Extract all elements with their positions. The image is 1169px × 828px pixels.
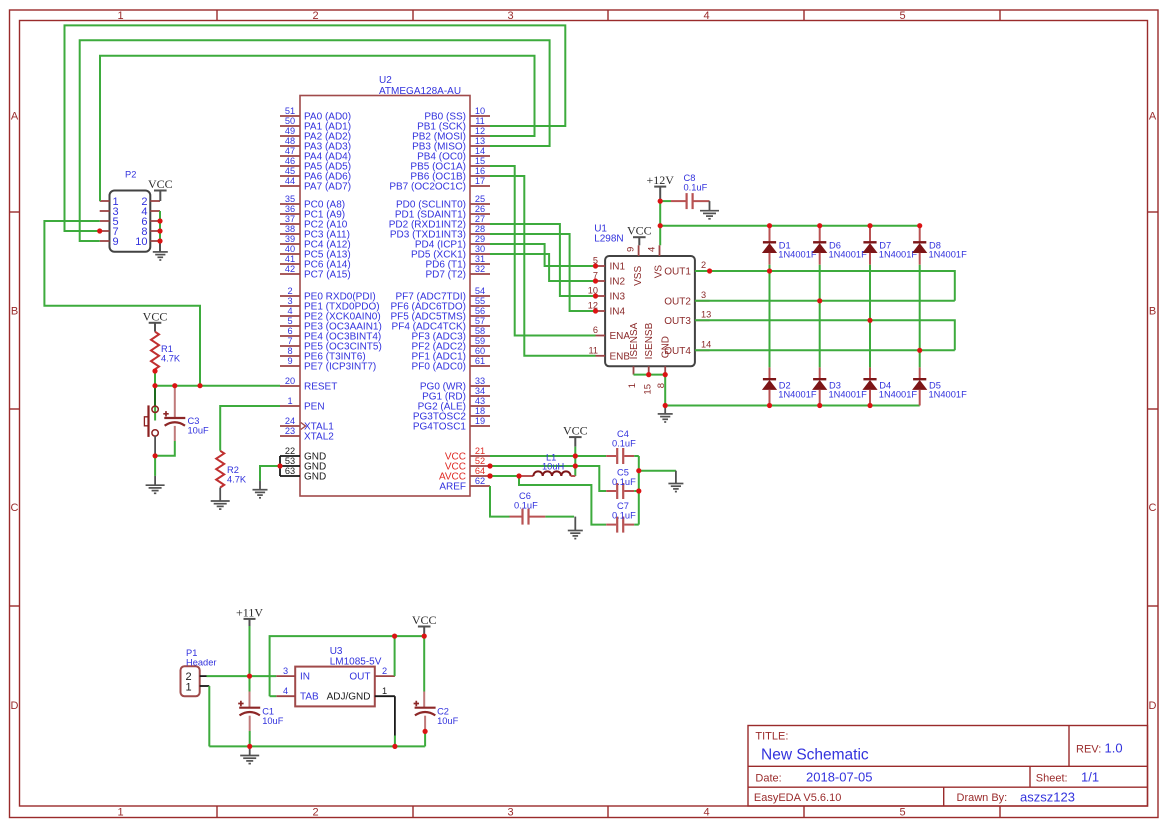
svg-text:10: 10	[135, 236, 147, 248]
svg-text:19: 19	[475, 416, 485, 426]
svg-text:20: 20	[285, 376, 295, 386]
svg-text:41: 41	[285, 254, 295, 264]
svg-text:3: 3	[507, 807, 513, 819]
svg-text:1N4001F: 1N4001F	[929, 250, 968, 260]
svg-text:59: 59	[475, 336, 485, 346]
svg-text:C: C	[11, 502, 19, 514]
capacitor C3 10uF	[174, 386, 176, 418]
svg-text:Header: Header	[186, 658, 217, 668]
svg-text:21: 21	[475, 446, 485, 456]
svg-text:0.1uF: 0.1uF	[684, 183, 708, 193]
svg-text:61: 61	[475, 356, 485, 366]
svg-text:PEN: PEN	[304, 402, 325, 413]
wire P2 pin4-6-8-10 bus	[159, 211, 161, 241]
diode D8 1N4001F	[919, 226, 921, 242]
ground at C8	[709, 201, 711, 211]
svg-text:1N4001F: 1N4001F	[829, 390, 868, 400]
svg-text:55: 55	[475, 296, 485, 306]
svg-text:+11V: +11V	[236, 606, 263, 620]
svg-text:32: 32	[475, 264, 485, 274]
wire bottom gnd rail	[209, 745, 424, 747]
diode D6 1N4001F	[819, 226, 821, 242]
svg-text:1: 1	[117, 807, 123, 819]
svg-text:11: 11	[588, 345, 598, 355]
svg-text:B: B	[1149, 306, 1156, 318]
svg-text:VCC: VCC	[412, 613, 437, 627]
svg-text:2: 2	[312, 807, 318, 819]
svg-text:REV:: REV:	[1076, 744, 1101, 756]
svg-text:37: 37	[285, 214, 295, 224]
svg-text:New Schematic: New Schematic	[761, 747, 869, 764]
capacitor C5 0.1uF	[606, 490, 616, 492]
svg-text:Date:: Date:	[755, 773, 781, 785]
ground below R2	[219, 488, 221, 502]
ground at U1	[664, 406, 666, 414]
svg-text:13: 13	[475, 136, 485, 146]
svg-text:63: 63	[285, 466, 295, 476]
svg-text:VSS: VSS	[633, 266, 644, 286]
svg-text:ENB: ENB	[610, 351, 631, 362]
IC U3 LM1085-5V body	[295, 667, 375, 707]
svg-text:42: 42	[285, 264, 295, 274]
ground below C1 rail	[249, 746, 251, 755]
svg-text:4: 4	[287, 306, 292, 316]
svg-text:10uF: 10uF	[262, 716, 284, 726]
svg-text:0.1uF: 0.1uF	[612, 511, 636, 521]
wire GND rail to diodes	[665, 405, 920, 407]
ground at filter rail	[675, 471, 677, 484]
power flag VCC at P2 pin2	[148, 177, 173, 191]
wire rail to ground	[639, 470, 676, 472]
svg-text:PE7 (ICP3INT7): PE7 (ICP3INT7)	[304, 362, 376, 373]
svg-text:A: A	[1149, 111, 1157, 123]
svg-text:10uF: 10uF	[437, 716, 459, 726]
svg-text:38: 38	[285, 224, 295, 234]
wire AVCC branch to C7	[519, 476, 606, 525]
svg-text:50: 50	[285, 116, 295, 126]
svg-text:P1: P1	[186, 648, 197, 658]
svg-text:P2: P2	[125, 170, 136, 180]
wire U2 PD5 to U1 IN2	[490, 254, 596, 281]
wire P2 pin9 to U2 PB3 MISO	[80, 40, 550, 241]
svg-text:PD7 (T2): PD7 (T2)	[425, 270, 466, 281]
wire U3 OUT riser	[394, 636, 396, 676]
wire U2 VCC52 to C5	[490, 466, 606, 491]
wire P2 pin5 to RESET node	[44, 221, 200, 386]
svg-text:51: 51	[285, 106, 295, 116]
diode D2 1N4001F	[769, 367, 771, 379]
svg-text:4: 4	[283, 686, 288, 696]
svg-text:PC7 (A15): PC7 (A15)	[304, 270, 351, 281]
wire P1 pin2 to U3 IN	[207, 675, 277, 677]
svg-text:L298N: L298N	[594, 234, 623, 245]
wire ADJ/GND down	[394, 696, 396, 735]
svg-text:18: 18	[475, 406, 485, 416]
wire OUT3 loop	[695, 320, 955, 350]
svg-text:47: 47	[285, 146, 295, 156]
svg-text:24: 24	[285, 416, 295, 426]
wire U2 PD3 to U1 IN4	[490, 234, 596, 311]
wire P1 pin1 down to gnd rail	[208, 686, 210, 746]
svg-text:44: 44	[285, 176, 295, 186]
svg-text:1N4001F: 1N4001F	[879, 390, 918, 400]
svg-text:1N4001F: 1N4001F	[778, 250, 817, 260]
svg-text:EasyEDA V5.6.10: EasyEDA V5.6.10	[754, 792, 841, 804]
wire OUT2 loop	[695, 300, 955, 302]
svg-text:3: 3	[701, 290, 706, 300]
capacitor C6 0.1uF	[510, 516, 523, 518]
svg-text:4: 4	[703, 10, 709, 22]
capacitor C8 0.1uF	[660, 200, 671, 202]
U1 left pins IN1-IN4 ENA ENB	[588, 256, 631, 363]
svg-text:1N4001F: 1N4001F	[778, 390, 817, 400]
svg-text:10uH: 10uH	[542, 462, 564, 472]
capacitor C1 10uF	[249, 692, 251, 708]
svg-text:C5: C5	[617, 468, 629, 478]
wire U1 ISENSA ISENSB GND tie	[634, 375, 666, 406]
svg-text:VCC: VCC	[627, 224, 652, 238]
svg-text:64: 64	[475, 466, 485, 476]
svg-text:40: 40	[285, 244, 295, 254]
svg-text:14: 14	[475, 146, 485, 156]
svg-text:TAB: TAB	[300, 692, 319, 703]
svg-text:45: 45	[285, 166, 295, 176]
svg-text:LM1085-5V: LM1085-5V	[330, 657, 382, 668]
capacitor C7 0.1uF	[606, 524, 616, 526]
power flag VCC at R1	[143, 309, 168, 323]
wire P2 pin7 to U2 PB1 SCK	[65, 25, 566, 231]
diode D7 1N4001F	[869, 226, 871, 242]
svg-text:54: 54	[475, 286, 485, 296]
wire P2 pin1 to U2 PB2 MOSI	[100, 56, 535, 201]
svg-text:49: 49	[285, 126, 295, 136]
svg-text:9: 9	[626, 247, 637, 252]
svg-text:33: 33	[475, 376, 485, 386]
svg-text:1: 1	[627, 383, 638, 388]
wire RESET row to U2 pin20	[155, 385, 280, 387]
svg-text:VCC: VCC	[148, 177, 173, 191]
wire U2 PD2 to U1 IN3	[490, 224, 596, 296]
svg-text:TITLE:: TITLE:	[755, 731, 788, 743]
svg-text:PG4TOSC1: PG4TOSC1	[413, 422, 467, 433]
svg-text:C6: C6	[519, 491, 531, 501]
svg-text:Sheet:: Sheet:	[1036, 773, 1068, 785]
svg-text:48: 48	[285, 136, 295, 146]
svg-text:3: 3	[283, 666, 288, 676]
svg-text:52: 52	[475, 456, 485, 466]
wire R1 bottom to RESET row	[154, 369, 156, 386]
svg-text:GND: GND	[661, 336, 672, 358]
svg-text:15: 15	[475, 156, 485, 166]
svg-text:43: 43	[475, 396, 485, 406]
svg-text:PA7 (AD7): PA7 (AD7)	[304, 182, 351, 193]
svg-text:28: 28	[475, 224, 485, 234]
svg-text:OUT: OUT	[349, 672, 370, 683]
svg-text:31: 31	[475, 254, 485, 264]
power flag VCC at C4	[563, 424, 588, 438]
power flag VCC at U3	[412, 613, 437, 627]
svg-text:57: 57	[475, 316, 485, 326]
svg-text:C3: C3	[188, 416, 200, 426]
svg-text:4.7K: 4.7K	[161, 354, 181, 364]
svg-text:5: 5	[899, 807, 905, 819]
capacitor C4 0.1uF	[606, 455, 616, 457]
svg-text:4: 4	[703, 807, 709, 819]
svg-text:IN2: IN2	[610, 277, 626, 288]
svg-text:GND: GND	[304, 472, 326, 483]
wire +12V to C8 and VS	[659, 201, 661, 245]
diode D4 1N4001F	[869, 367, 871, 379]
svg-text:1N4001F: 1N4001F	[929, 390, 968, 400]
svg-text:16: 16	[475, 166, 485, 176]
ground below switch	[154, 476, 156, 485]
wire switch bottom down	[154, 456, 156, 476]
svg-text:ENA: ENA	[610, 331, 631, 342]
svg-text:D: D	[1149, 700, 1157, 712]
U1 bottom pins ISENSA ISENSB GND	[634, 366, 666, 374]
svg-text:1N4001F: 1N4001F	[879, 250, 918, 260]
svg-text:1: 1	[382, 686, 387, 696]
svg-text:4: 4	[647, 247, 658, 252]
wire U2 AREF to C6	[490, 486, 510, 517]
resistor R2 4.7K	[216, 451, 224, 488]
svg-text:7: 7	[287, 336, 292, 346]
svg-text:10: 10	[475, 106, 485, 116]
svg-text:25: 25	[475, 194, 485, 204]
svg-text:0.1uF: 0.1uF	[612, 439, 636, 449]
pushbutton S1	[144, 405, 158, 455]
connector P1 Header	[181, 648, 217, 696]
svg-text:aszsz123: aszsz123	[1020, 790, 1075, 805]
IC U1 L298N body	[605, 256, 695, 366]
svg-text:23: 23	[285, 426, 295, 436]
svg-text:B: B	[11, 306, 18, 318]
svg-text:17: 17	[475, 176, 485, 186]
wire OUT4 loop	[695, 349, 955, 351]
svg-text:13: 13	[701, 309, 711, 319]
power flag VCC at U1 VSS	[627, 224, 652, 238]
svg-text:10uF: 10uF	[188, 426, 210, 436]
svg-text:22: 22	[285, 446, 295, 456]
wire right filter rail	[638, 456, 640, 525]
svg-text:ISENSA: ISENSA	[629, 322, 640, 359]
svg-text:29: 29	[475, 234, 485, 244]
svg-text:OUT3: OUT3	[664, 316, 691, 327]
svg-text:C8: C8	[684, 173, 696, 183]
svg-text:5: 5	[899, 10, 905, 22]
svg-text:5: 5	[287, 316, 292, 326]
net label +12V	[646, 173, 674, 201]
svg-text:2: 2	[382, 666, 387, 676]
wire U2 GND pins to ground	[260, 466, 280, 481]
svg-text:C: C	[1149, 502, 1157, 514]
wire U2 PEN to R2	[220, 406, 280, 451]
svg-text:1: 1	[117, 10, 123, 22]
ground at P2 pins 4-10	[159, 241, 161, 252]
svg-text:U3: U3	[330, 646, 343, 657]
inductor L1 10uH	[490, 475, 519, 477]
svg-text:A: A	[11, 111, 19, 123]
svg-text:60: 60	[475, 346, 485, 356]
svg-text:1/1: 1/1	[1081, 770, 1099, 785]
svg-text:8: 8	[287, 346, 292, 356]
U1 right pins OUT1-OUT4	[664, 260, 711, 357]
U1 top pins VSS VS	[639, 245, 660, 256]
junction dots layer	[97, 199, 922, 750]
svg-text:VCC: VCC	[143, 309, 168, 323]
wire VCC rail above U3	[270, 636, 425, 696]
svg-text:RESET: RESET	[304, 382, 337, 393]
svg-text:6: 6	[593, 325, 598, 335]
svg-text:6: 6	[287, 326, 292, 336]
wire U2 VCC21 to C4	[490, 455, 606, 457]
wire rail to TAB	[270, 695, 277, 697]
wire U2 PD4 to U1 IN1	[490, 244, 596, 266]
svg-text:2018-07-05: 2018-07-05	[806, 770, 873, 785]
diode D3 1N4001F	[819, 367, 821, 379]
svg-text:1: 1	[287, 396, 292, 406]
svg-text:30: 30	[475, 244, 485, 254]
svg-text:+12V: +12V	[646, 173, 674, 187]
svg-text:C4: C4	[617, 429, 629, 439]
capacitor C2 10uF	[423, 636, 425, 691]
wire D7 to D4	[869, 265, 871, 368]
svg-text:ISENSB: ISENSB	[644, 322, 655, 359]
svg-text:0.1uF: 0.1uF	[612, 477, 636, 487]
svg-text:26: 26	[475, 204, 485, 214]
svg-text:R2: R2	[227, 465, 239, 475]
svg-text:2: 2	[287, 286, 292, 296]
svg-text:1N4001F: 1N4001F	[829, 250, 868, 260]
svg-text:IN1: IN1	[610, 262, 626, 273]
wire D1 to D2	[769, 265, 771, 368]
svg-text:C7: C7	[617, 501, 629, 511]
title block	[748, 726, 1148, 807]
svg-text:U2: U2	[379, 75, 392, 86]
wire D6 to D3	[819, 265, 821, 368]
svg-text:D: D	[11, 700, 19, 712]
wire +12V rail to diodes	[660, 225, 920, 227]
svg-text:39: 39	[285, 234, 295, 244]
resistor R1 4.7K	[151, 332, 159, 370]
wire D8 to D5	[919, 265, 921, 368]
ground at C6	[574, 517, 576, 531]
svg-text:15: 15	[643, 384, 654, 395]
svg-text:58: 58	[475, 326, 485, 336]
svg-text:PB7 (OC2OC1C): PB7 (OC2OC1C)	[389, 182, 466, 193]
svg-text:3: 3	[287, 296, 292, 306]
svg-text:56: 56	[475, 306, 485, 316]
svg-text:0.1uF: 0.1uF	[514, 501, 538, 511]
svg-text:R1: R1	[161, 344, 173, 354]
svg-text:3: 3	[507, 10, 513, 22]
svg-text:IN: IN	[300, 672, 310, 683]
svg-text:AREF: AREF	[439, 482, 466, 493]
svg-text:VS: VS	[653, 265, 664, 279]
svg-text:ADJ/GND: ADJ/GND	[327, 692, 371, 703]
diode D5 1N4001F	[919, 367, 921, 379]
svg-text:IN3: IN3	[610, 292, 626, 303]
svg-text:2: 2	[701, 260, 706, 270]
svg-text:12: 12	[475, 126, 485, 136]
svg-text:27: 27	[475, 214, 485, 224]
wire +11V down to C1 and P1	[249, 626, 251, 692]
wire VCC drop	[574, 447, 576, 476]
diode D1 1N4001F	[769, 226, 771, 242]
svg-text:ATMEGA128A-AU: ATMEGA128A-AU	[379, 86, 461, 97]
svg-text:1: 1	[186, 682, 192, 694]
ground at U2 GND	[259, 481, 261, 490]
svg-text:OUT2: OUT2	[664, 296, 691, 307]
svg-text:IN4: IN4	[610, 307, 626, 318]
connector P2	[100, 170, 160, 252]
svg-text:53: 53	[285, 456, 295, 466]
svg-text:OUT1: OUT1	[664, 267, 691, 278]
wire RESET to switch	[154, 386, 156, 407]
svg-text:2: 2	[312, 10, 318, 22]
svg-text:36: 36	[285, 204, 295, 214]
net label +11V	[236, 606, 263, 627]
svg-text:34: 34	[475, 386, 485, 396]
svg-text:VCC: VCC	[563, 424, 588, 438]
svg-text:11: 11	[475, 116, 485, 126]
svg-text:46: 46	[285, 156, 295, 166]
svg-text:PF0 (ADC0): PF0 (ADC0)	[412, 362, 466, 373]
U2 left pins PA/PC/PE/RESET/PEN/XTAL	[280, 106, 382, 443]
wire U2 PB6 to U1 ENB	[490, 176, 596, 356]
svg-text:14: 14	[701, 339, 711, 349]
svg-text:62: 62	[475, 476, 485, 486]
svg-text:9: 9	[287, 356, 292, 366]
svg-text:1.0: 1.0	[1105, 741, 1123, 756]
IC U2 ATMEGA128A-AU body	[300, 96, 470, 497]
svg-text:9: 9	[113, 236, 119, 248]
svg-text:35: 35	[285, 194, 295, 204]
wire OUT1 loop	[695, 271, 955, 301]
U2 right pins PB/PD/PF/PG/VCC/AREF	[389, 106, 490, 493]
svg-text:XTAL2: XTAL2	[304, 432, 334, 443]
wire U2 PB5 to U1 ENA	[490, 166, 596, 336]
svg-text:Drawn By:: Drawn By:	[957, 792, 1008, 804]
wire C3 bottom to switch bottom	[155, 441, 175, 456]
svg-text:4.7K: 4.7K	[227, 475, 247, 485]
U2 GND pins 22 53 63	[280, 446, 326, 483]
